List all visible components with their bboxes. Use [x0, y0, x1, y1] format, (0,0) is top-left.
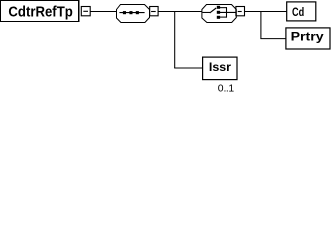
svg-text:Issr: Issr [209, 60, 231, 74]
svg-text:Cd: Cd [292, 5, 304, 19]
svg-text:1: 1 [228, 84, 234, 95]
svg-text:CdtrRefTp: CdtrRefTp [8, 4, 72, 21]
svg-text:Prtry: Prtry [291, 29, 324, 43]
